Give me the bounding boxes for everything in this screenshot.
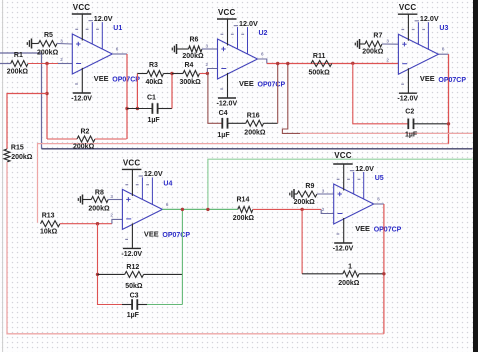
svg-text:200kΩ: 200kΩ (7, 69, 29, 76)
op-amp U2 (218, 26, 258, 89)
svg-text:200kΩ: 200kΩ (182, 53, 204, 60)
svg-text:12.0V: 12.0V (239, 19, 258, 28)
VCC supply U3 (12.0V) (398, 3, 439, 41)
wire (U3 output feedback rail) (38, 54, 449, 223)
svg-text:R15: R15 (11, 145, 24, 152)
svg-text:40kΩ: 40kΩ (146, 79, 164, 86)
op-amp U4 (122, 176, 162, 239)
pin numbers U1 (60, 39, 119, 63)
svg-text:VCC: VCC (399, 3, 417, 12)
resistor R13 10kOhm (40, 213, 112, 236)
svg-text:R14: R14 (237, 197, 250, 204)
wire (U2 output rail to right edge) (282, 64, 472, 134)
VCC supply U2 (12.0V) (217, 8, 258, 46)
svg-text:200kΩ: 200kΩ (233, 215, 255, 222)
VCC supply U4 (12.0V) (122, 158, 163, 196)
VEE supply U5 (-12.0V) (333, 218, 354, 253)
junction (U2 output/R16) (276, 62, 279, 65)
svg-text:6: 6 (377, 197, 380, 202)
svg-text:-12.0V: -12.0V (333, 246, 354, 253)
ground (R5 non-inverting return) (27, 39, 31, 49)
wire (R15 down to bottom rail) (7, 162, 384, 334)
junction (U4 output/feedback) (181, 208, 184, 211)
svg-text:VEE: VEE (94, 74, 109, 83)
capacitor C3 1uF (122, 293, 182, 320)
junction (R12 left) (96, 273, 99, 276)
svg-text:C4: C4 (219, 110, 228, 117)
svg-text:-12.0V: -12.0V (121, 251, 142, 258)
wire (U5 inverting node down to feedback resistor) (301, 209, 303, 273)
svg-text:3: 3 (386, 39, 389, 44)
junction (node A branch to R15) (45, 92, 48, 95)
svg-text:R8: R8 (95, 190, 104, 197)
wire (U2 inverting node down to C4) (208, 73, 223, 123)
svg-text:C3: C3 (130, 293, 139, 300)
svg-text:VCC: VCC (334, 151, 352, 160)
svg-text:500kΩ: 500kΩ (309, 69, 331, 76)
wire (U1 output down to node B) (112, 54, 127, 139)
svg-text:-12.0V: -12.0V (397, 96, 418, 103)
svg-text:OP07CP: OP07CP (374, 227, 402, 234)
pin numbers U5 (322, 189, 381, 213)
svg-text:R11: R11 (313, 53, 326, 60)
svg-text:12.0V: 12.0V (144, 169, 163, 178)
svg-text:R9: R9 (305, 183, 314, 190)
svg-text:200kΩ: 200kΩ (37, 49, 59, 56)
junction (U5 feedback node) (382, 272, 385, 275)
svg-text:VCC: VCC (73, 3, 91, 12)
resistor R1 200kOhm (7, 52, 73, 76)
resistor R4 300kOhm (172, 62, 207, 86)
pin numbers U4 (110, 194, 168, 218)
svg-text:200kΩ: 200kΩ (88, 205, 110, 212)
svg-text:12.0V: 12.0V (94, 14, 113, 23)
svg-text:OP07CP: OP07CP (438, 77, 466, 84)
junction (U1 output node with C1/R2) (125, 107, 128, 110)
wire (U5 output down to bottom rail) (374, 204, 384, 334)
VEE supply U4 (-12.0V) (121, 223, 142, 258)
pin numbers U2 (206, 44, 265, 68)
svg-text:U4: U4 (163, 180, 172, 187)
svg-text:12.0V: 12.0V (355, 164, 374, 173)
resistor R7 200kOhm (360, 32, 399, 55)
wire (U4 output green rail to right edge) (208, 159, 473, 209)
svg-text:200kΩ: 200kΩ (244, 130, 266, 137)
VCC supply U1 (12.0V) (72, 3, 113, 41)
wire (R16 up to U2 output) (277, 64, 279, 124)
wire (node A to R15 top) (7, 94, 47, 150)
svg-text:3: 3 (60, 39, 63, 44)
svg-text:R5: R5 (44, 32, 53, 39)
wire (R4 to U2 inverting input) (207, 69, 217, 74)
wire (U2 output) (258, 59, 399, 64)
svg-text:R3: R3 (149, 62, 158, 69)
label U4 OP07CP (144, 180, 190, 239)
resistor R3 40kOhm (137, 62, 172, 86)
op-amp U3 (398, 21, 438, 84)
junction (R14/feedback node) (300, 208, 303, 211)
svg-text:U3: U3 (439, 25, 448, 32)
label U2 OP07CP (239, 30, 285, 89)
svg-text:200kΩ: 200kΩ (338, 280, 360, 287)
ground (R7 non-inverting return) (355, 39, 359, 49)
svg-text:200kΩ: 200kΩ (11, 154, 33, 161)
svg-text:200kΩ: 200kΩ (294, 199, 316, 206)
resistor R14 200kOhm (233, 197, 321, 222)
resistor R8 200kOhm (83, 190, 123, 213)
svg-text:-12.0V: -12.0V (217, 101, 238, 108)
resistor R9 200kOhm (294, 183, 334, 206)
svg-text:2: 2 (206, 62, 209, 67)
resistor R11 500kOhm (309, 53, 332, 76)
wire (navy rail to right edge) (42, 148, 473, 150)
junction (R13/R12 node) (96, 222, 99, 225)
svg-text:6: 6 (166, 202, 169, 207)
VEE supply U2 (-12.0V) (217, 73, 238, 108)
wire (U4 inverting node down to R12/C3) (98, 224, 123, 305)
svg-text:R12: R12 (126, 264, 139, 271)
wire (R3 left branch down to C1 node) (136, 74, 139, 111)
svg-text:2: 2 (322, 207, 325, 212)
junction (U2 inverting node to C4) (206, 72, 209, 75)
ground (R8 non-inverting return) (78, 195, 82, 205)
svg-text:R1: R1 (14, 52, 23, 59)
resistor R15 200kOhm (global feedback) (4, 145, 33, 163)
capacitor C2 1uF (405, 109, 449, 139)
wire (node A down to R2) (46, 64, 48, 140)
VCC supply U5 (12.0V) (333, 151, 374, 190)
svg-text:6: 6 (442, 47, 445, 52)
svg-text:U5: U5 (375, 175, 384, 182)
wire (U4 output green) (162, 208, 237, 210)
svg-text:VEE: VEE (239, 79, 254, 88)
ground (R6 non-inverting return) (172, 44, 176, 54)
svg-text:C1: C1 (147, 94, 156, 101)
svg-text:R4: R4 (185, 62, 194, 69)
junction (R11/C2 node) (351, 62, 354, 65)
svg-text:2: 2 (386, 57, 389, 62)
resistor R5 200kOhm (32, 32, 73, 56)
svg-text:1µF: 1µF (217, 132, 230, 139)
svg-text:R16: R16 (247, 113, 260, 120)
svg-text:3: 3 (110, 194, 113, 199)
resistor 1 200kOhm (U5 feedback) (302, 263, 384, 287)
svg-text:10kΩ: 10kΩ (40, 228, 58, 235)
op-amp U1 (72, 21, 112, 84)
svg-text:3: 3 (322, 189, 325, 194)
svg-text:50kΩ: 50kΩ (125, 283, 143, 290)
resistor R12 50kOhm (U4 feedback) (98, 264, 183, 290)
junction (U2 output/rail) (286, 62, 289, 65)
svg-text:R7: R7 (373, 32, 382, 39)
svg-text:2: 2 (110, 213, 113, 218)
op-amp U5 (334, 171, 374, 234)
resistor R6 200kOhm (177, 36, 218, 60)
svg-text:200kΩ: 200kΩ (73, 144, 95, 151)
wire (R13 to U4 inverting input) (112, 219, 123, 223)
wire (R14 to U5 inverting input) (321, 209, 334, 213)
svg-text:6: 6 (261, 52, 264, 57)
svg-text:U1: U1 (113, 25, 122, 32)
pin numbers U3 (386, 39, 445, 63)
svg-text:R6: R6 (190, 36, 199, 43)
ground (R9 non-inverting return) (290, 189, 294, 199)
capacitor C4 1uF (217, 110, 245, 139)
label U1 OP07CP (94, 25, 140, 84)
svg-text:3: 3 (206, 44, 209, 49)
resistor R16 200kOhm (U2 feedback) (244, 113, 277, 137)
svg-text:VEE: VEE (355, 224, 370, 233)
svg-text:OP07CP: OP07CP (258, 82, 286, 89)
label U3 OP07CP (420, 25, 466, 84)
resistor R2 200kOhm (U1 feedback) (47, 129, 127, 151)
wire (U3 inverting node down to C2) (353, 63, 408, 124)
wire (R1 input wire from left edge) (0, 63, 11, 65)
VEE supply U1 (-12.0V) (71, 68, 92, 103)
svg-text:OP07CP: OP07CP (112, 77, 140, 84)
svg-text:-12.0V: -12.0V (71, 96, 92, 103)
svg-text:2: 2 (60, 57, 63, 62)
svg-text:R13: R13 (42, 213, 55, 220)
svg-text:1: 1 (348, 263, 352, 270)
svg-text:R2: R2 (81, 129, 90, 136)
VEE supply U3 (-12.0V) (397, 68, 418, 103)
svg-text:C2: C2 (405, 109, 414, 116)
svg-text:VCC: VCC (218, 8, 236, 17)
svg-text:300kΩ: 300kΩ (180, 79, 202, 86)
svg-text:1µF: 1µF (148, 117, 161, 124)
svg-text:VEE: VEE (420, 74, 435, 83)
svg-text:U2: U2 (259, 30, 268, 37)
label U5 OP07CP (355, 175, 401, 234)
svg-text:1µF: 1µF (127, 312, 140, 319)
wire (input net from left edge, slate blue) (0, 53, 42, 149)
svg-text:6: 6 (116, 47, 119, 52)
wire (green feedback from U4 output to R12/C3) (181, 209, 183, 304)
svg-text:OP07CP: OP07CP (162, 232, 190, 239)
junction (U4 output/rail) (206, 208, 209, 211)
svg-text:12.0V: 12.0V (420, 14, 439, 23)
junction (C2/U3 output) (447, 122, 450, 125)
junction (R3/R4/C1 node) (170, 72, 173, 75)
svg-text:VCC: VCC (123, 158, 141, 167)
node A (junction R1/R2/R15 at U1 inverting input) (45, 62, 48, 65)
svg-text:VEE: VEE (144, 229, 159, 238)
capacitor C1 1uF (127, 94, 172, 124)
wire (C1 right up to R3/R4 junction) (171, 74, 173, 109)
svg-text:200kΩ: 200kΩ (362, 48, 384, 55)
svg-text:1µF: 1µF (405, 132, 418, 139)
